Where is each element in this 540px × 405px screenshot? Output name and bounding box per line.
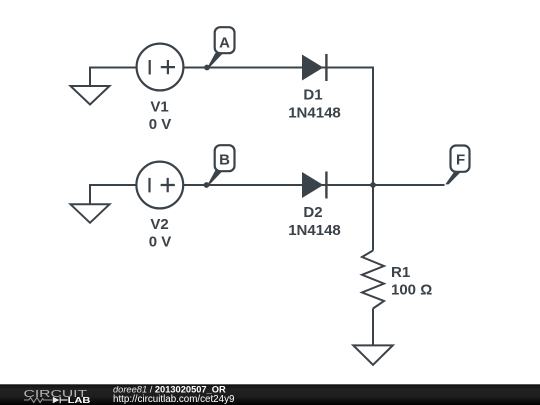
svg-text:D2: D2 [303, 204, 322, 221]
svg-text:V1: V1 [150, 99, 168, 116]
svg-text:1N4148: 1N4148 [288, 222, 341, 239]
svg-text:doree81 / 2013020507_OR: doree81 / 2013020507_OR [113, 384, 226, 394]
svg-text:100 Ω: 100 Ω [391, 282, 432, 299]
svg-text:R1: R1 [391, 264, 410, 281]
svg-text:LAB: LAB [68, 396, 91, 405]
svg-text:0 V: 0 V [149, 234, 172, 251]
svg-text:D1: D1 [303, 87, 322, 104]
svg-text:0 V: 0 V [149, 116, 172, 133]
svg-text:A: A [219, 34, 230, 51]
svg-text:V2: V2 [150, 216, 168, 233]
svg-text:1N4148: 1N4148 [288, 105, 341, 122]
svg-text:F: F [456, 151, 465, 168]
svg-text:B: B [219, 151, 230, 168]
svg-text:http://circuitlab.com/cet24y9: http://circuitlab.com/cet24y9 [113, 394, 234, 405]
